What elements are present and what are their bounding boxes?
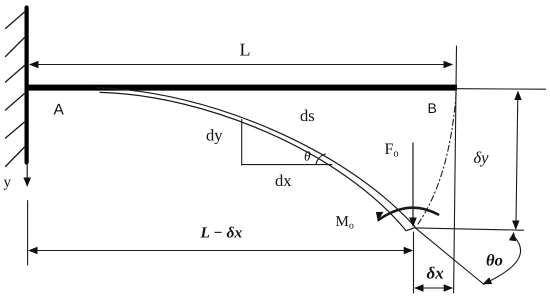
svg-text:dx: dx (275, 171, 292, 190)
horizontal line at tip level (415, 228, 523, 230)
y axis arrow (26, 162, 28, 179)
svg-text:δx: δx (427, 264, 445, 283)
L minus delta-x left arrowhead (28, 247, 38, 254)
svg-text:θ: θ (304, 149, 311, 164)
svg-text:y: y (4, 175, 12, 191)
moment Mo arrowhead (376, 212, 384, 222)
theta-o angle arc (485, 237, 521, 284)
svg-text:Fo: Fo (385, 141, 399, 160)
dx horizontal line of slope triangle (242, 164, 332, 166)
svg-text:dy: dy (206, 126, 223, 145)
horizontal reference line right of B (457, 88, 546, 91)
vertical reference line at B (454, 46, 457, 293)
left boundary line for L minus delta-x (27, 201, 29, 266)
tangent line at tip (415, 228, 484, 285)
beam AB (undeflected) (25, 85, 457, 91)
dimension L left arrowhead (29, 61, 39, 68)
fixed wall (25, 8, 29, 163)
dimension L line (31, 64, 450, 66)
delta-x left arrowhead (414, 284, 424, 291)
theta-o top arrowhead (509, 232, 516, 241)
svg-text:L − δx: L − δx (200, 225, 243, 242)
svg-text:B: B (428, 100, 437, 116)
force Fo arrow (412, 143, 414, 219)
dimension L right arrowhead (444, 61, 454, 68)
svg-text:Mo: Mo (336, 214, 354, 232)
L minus delta-x dimension line (31, 250, 410, 252)
delta-x right arrowhead (444, 284, 454, 291)
deflected beam upper curve (96, 88, 414, 226)
wall hatching (6, 12, 25, 167)
delta-x left boundary line (413, 232, 415, 293)
L minus delta-x right arrowhead (404, 247, 414, 254)
theta-o end arrowhead (483, 277, 493, 284)
svg-text:A: A (54, 102, 65, 119)
delta-x dimension line (417, 287, 450, 289)
tip trajectory dash-dot curve (416, 93, 456, 227)
dy vertical line of slope triangle (241, 120, 243, 166)
svg-text:L: L (240, 40, 251, 60)
deflected beam lower curve (100, 92, 406, 230)
moment Mo arc (379, 208, 439, 220)
svg-text:ds: ds (300, 106, 315, 125)
deflected beam tip (406, 225, 415, 230)
delta-y bottom arrowhead (512, 221, 519, 231)
deflection dy dimension line (516, 95, 518, 224)
theta angle arc (316, 154, 325, 164)
svg-text:δy: δy (474, 148, 490, 167)
svg-text:θo: θo (486, 251, 503, 270)
delta-y top arrowhead (514, 91, 521, 101)
